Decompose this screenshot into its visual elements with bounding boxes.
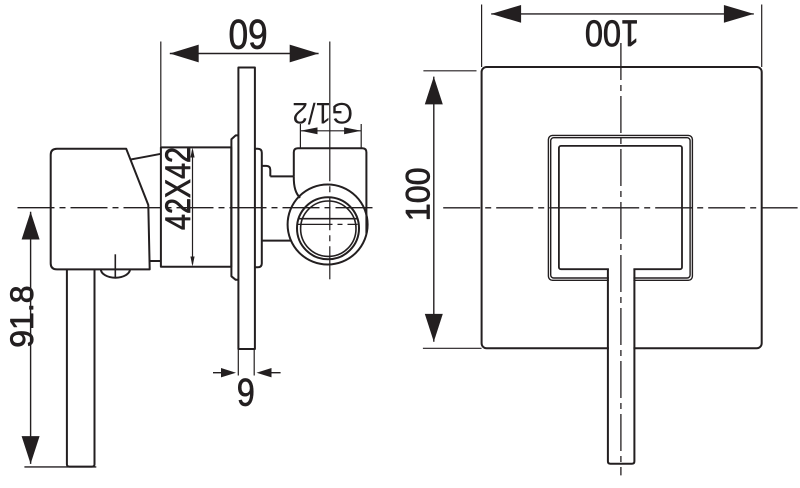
dimension 91.8 bottom arrow [22, 436, 40, 464]
svg-text:91.8: 91.8 [4, 285, 40, 347]
dimension 42X42 line [192, 150, 194, 264]
front escutcheon outer square line 2 [551, 138, 690, 278]
handle bell top arc [130, 154, 161, 160]
lever axis tick [114, 254, 116, 277]
dimension 91.8 line [30, 212, 32, 464]
front lever handle outline [608, 269, 635, 464]
dimension 100 top right arrow [724, 5, 754, 23]
front lever occluder [609, 267, 634, 462]
cartridge sleeve right of wall [255, 149, 262, 267]
body fillet into port boss [294, 176, 300, 197]
dimension 6 left tail and arrow [213, 372, 221, 374]
wire main horizontal centerline (side view) [18, 207, 376, 209]
wire front vertical centerline [620, 43, 622, 475]
port thread outer circle [297, 197, 359, 259]
dimension 100 top left arrow [491, 5, 521, 23]
lever handle (side view) [67, 269, 95, 466]
svg-text:60: 60 [228, 10, 267, 57]
inlet pipe bottom edge [262, 240, 291, 242]
dimension 42X42 top arrow [190, 148, 194, 158]
dimension 100 left line [433, 77, 435, 342]
dimension G1/2 right arrow [344, 127, 361, 134]
svg-text:G1/2: G1/2 [292, 96, 353, 129]
svg-text:6: 6 [237, 370, 255, 414]
svg-text:100: 100 [400, 167, 438, 221]
wire front horizontal centerline [443, 207, 797, 209]
dimension 100 left top arrow [425, 77, 443, 105]
dimension G1/2 left extension line [299, 124, 301, 149]
dimension G1/2 left arrow [300, 127, 317, 134]
mounting flange behind wall [231, 135, 238, 279]
dimension 100 left extension lines [423, 71, 482, 349]
dimension 42X42 bottom arrow [190, 257, 194, 267]
wire port vertical centerline [329, 42, 331, 149]
mounting tab on sleeve [262, 166, 271, 177]
svg-text:100: 100 [585, 12, 639, 53]
dimension 60 line [170, 53, 319, 55]
port boss outer circle [288, 185, 368, 265]
dimension 60 left arrow [170, 45, 199, 63]
dimension G1/2 right extension line [360, 124, 362, 149]
inlet pipe top edge [270, 175, 294, 177]
front escutcheon inner square [559, 146, 682, 269]
wire port horizontal centerline [298, 223, 358, 225]
dimension 60 left extension line [160, 42, 162, 147]
front wall plate 100x100 [482, 67, 762, 348]
handle body (side view) [51, 149, 150, 270]
lever hub half-ellipse [101, 269, 130, 278]
dimension 100 top extension lines [482, 5, 762, 68]
dimension 6 extension lines [238, 349, 254, 376]
dimension 100 top line [491, 13, 754, 15]
svg-text:42X42: 42X42 [158, 147, 197, 230]
dimension 6 right tail and arrow [272, 372, 281, 374]
wall plate [238, 68, 255, 350]
dimension G1/2 line [300, 130, 361, 132]
dimension 100 left bottom arrow [425, 314, 443, 342]
front escutcheon outer square line 1 [548, 135, 692, 280]
valve body block [294, 148, 367, 233]
dimension 60 right arrow [290, 45, 319, 63]
port chord line [299, 218, 358, 220]
escutcheon 42x42 (side view) [161, 147, 231, 266]
dimension 91.8 bottom extension line [24, 466, 96, 468]
port thread inner circle [301, 201, 356, 256]
dimension 91.8 top arrow [22, 212, 40, 240]
handle bell bottom arc [150, 260, 161, 262]
